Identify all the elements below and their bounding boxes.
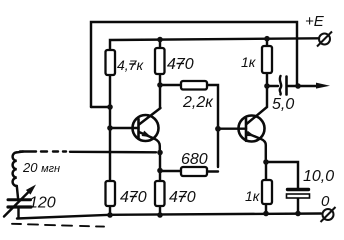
svg-text:0: 0 [321, 193, 330, 210]
svg-text:1к: 1к [241, 54, 257, 70]
svg-text:5,0: 5,0 [272, 96, 294, 113]
svg-text:20 мгн: 20 мгн [22, 160, 60, 175]
svg-text:470: 470 [120, 189, 147, 206]
svg-text:+Е: +Е [305, 13, 325, 30]
svg-text:2,2к: 2,2к [182, 94, 214, 111]
svg-text:470: 470 [167, 56, 194, 73]
svg-text:1к: 1к [245, 188, 261, 204]
svg-text:470: 470 [169, 189, 196, 206]
svg-text:680: 680 [181, 151, 208, 168]
svg-text:10,0: 10,0 [303, 168, 334, 185]
svg-text:4,7к: 4,7к [117, 57, 144, 73]
svg-text:120: 120 [29, 195, 56, 212]
